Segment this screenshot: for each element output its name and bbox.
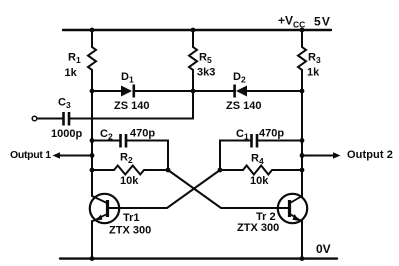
wire right column to Tr2 collector — [301, 91, 303, 196]
resistor R4 — [243, 166, 272, 175]
wire R3 top — [301, 30, 303, 47]
Output 1 arrowhead — [53, 152, 61, 159]
svg-text:Tr1: Tr1 — [123, 212, 140, 224]
wire left column collector Tr1 upper — [91, 30, 93, 47]
wire D1 anode — [92, 90, 121, 92]
svg-text:ZTX 300: ZTX 300 — [237, 222, 279, 234]
svg-text:5V: 5V — [314, 15, 330, 29]
node Vcc-R3 — [300, 28, 305, 33]
transistor Tr1 — [90, 194, 119, 223]
diode D1 — [121, 85, 134, 98]
node R4 right — [300, 168, 305, 173]
wire C2 left — [92, 140, 120, 142]
input terminal — [32, 116, 37, 121]
node C2 left — [90, 138, 95, 143]
svg-text:470p: 470p — [130, 128, 155, 140]
wire R4 right — [272, 169, 302, 171]
resistor R3 — [298, 47, 306, 70]
diode D2 — [235, 85, 247, 98]
resistor R2 — [114, 166, 144, 175]
svg-text:10k: 10k — [250, 175, 269, 187]
wire C3 to input terminal — [38, 118, 63, 120]
wire cross-coupling R4 node to Tr1 base — [109, 170, 221, 208]
svg-text:Output 2: Output 2 — [347, 149, 393, 161]
node emitter1-0V — [90, 256, 95, 261]
node Output 1 — [90, 153, 95, 158]
node R4-C1 left join — [218, 168, 223, 173]
wire Tr1 emitter to 0V — [91, 221, 93, 259]
node Vcc-R5 — [191, 28, 196, 33]
wire Output 1 stub — [58, 155, 92, 157]
node R2-C2 right join — [166, 168, 171, 173]
wire R4 left — [220, 169, 243, 171]
svg-text:ZS 140: ZS 140 — [114, 100, 149, 112]
node D1 anode / collector 1 — [90, 89, 95, 94]
svg-text:10k: 10k — [120, 175, 139, 187]
Output 2 arrowhead — [333, 152, 341, 159]
wire Output 2 stub — [302, 155, 334, 157]
svg-text:ZS 140: ZS 140 — [226, 100, 261, 112]
node Vcc-R1 — [90, 28, 95, 33]
svg-text:1k: 1k — [307, 67, 320, 79]
wire Tr2 emitter to 0V — [301, 221, 303, 259]
wire trigger node down — [192, 91, 194, 119]
node R2 left — [90, 168, 95, 173]
wire top +Vcc rail — [63, 29, 331, 31]
node Output 2 — [300, 153, 305, 158]
node emitter2-0V — [300, 256, 305, 261]
transistor Tr2 — [278, 194, 307, 223]
svg-text:470p: 470p — [259, 128, 284, 140]
wire node to D2 cathode — [193, 90, 235, 92]
svg-text:3k3: 3k3 — [197, 67, 215, 79]
wire D2 anode — [247, 90, 302, 92]
resistor R5 — [189, 47, 197, 70]
node C1 right — [300, 138, 305, 143]
wire R1 bottom to D1 node — [91, 70, 93, 91]
svg-text:Output 1: Output 1 — [10, 149, 51, 161]
wire bottom 0V rail — [60, 257, 337, 259]
wire R3 bottom to D2 node — [301, 70, 303, 91]
capacitor C2 — [121, 134, 127, 148]
node D2 anode / collector 2 — [300, 89, 305, 94]
wire R2 left — [92, 169, 114, 171]
wire C2 right with corner down — [127, 141, 169, 171]
svg-text:ZTX 300: ZTX 300 — [109, 225, 151, 237]
svg-text:1k: 1k — [65, 67, 78, 79]
resistor R1 — [88, 47, 96, 70]
wire C1 left with corner down — [220, 141, 251, 171]
wire trigger to C3 — [69, 118, 193, 120]
wire R5 top — [192, 30, 194, 47]
svg-text:1000p: 1000p — [51, 128, 82, 140]
wire cross-coupling R2 node to Tr2 base — [168, 170, 289, 208]
wire C1 right — [258, 140, 303, 142]
wire left column through to Tr1 collector — [91, 91, 93, 196]
capacitor C1 — [252, 134, 258, 148]
node trigger junction — [191, 89, 196, 94]
wire R2 right — [144, 169, 168, 171]
svg-text:0V: 0V — [316, 242, 331, 256]
capacitor C3 — [64, 112, 70, 126]
wire R5 bottom to diode junction — [192, 70, 194, 91]
wire D1 cathode to node — [135, 90, 193, 92]
